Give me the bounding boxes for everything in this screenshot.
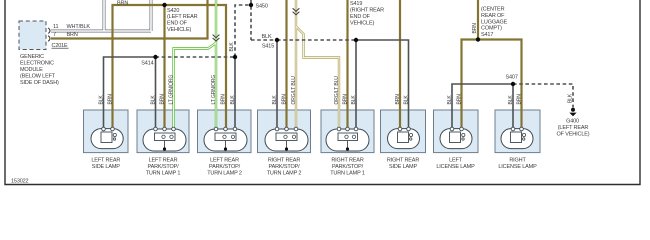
- svg-text:LEFT REAR: LEFT REAR: [149, 157, 178, 163]
- label connector C201E: [52, 43, 69, 49]
- label splice S420: [167, 8, 198, 33]
- svg-text:(LEFT REAR: (LEFT REAR: [167, 14, 198, 20]
- inline connector on ORG/LT BLU wire: [293, 8, 300, 14]
- inline connector on LT GRN/ORG wire: [213, 35, 220, 41]
- splice dot S415: [275, 38, 279, 42]
- svg-text:BLK: BLK: [150, 95, 156, 105]
- splice dot S417: [476, 37, 480, 41]
- svg-text:TURN LAMP 2: TURN LAMP 2: [267, 170, 302, 176]
- svg-text:S450: S450: [256, 3, 268, 9]
- svg-text:RIGHT REAR: RIGHT REAR: [268, 157, 300, 163]
- wire BLK dashed S415 to S419: [277, 39, 356, 41]
- svg-text:SIDE LAMP: SIDE LAMP: [389, 164, 417, 170]
- svg-text:RIGHT REAR: RIGHT REAR: [387, 157, 419, 163]
- wire BLK dashed S414 to S450 drop: [156, 56, 236, 58]
- svg-text:BLK: BLK: [230, 95, 236, 105]
- svg-text:LT GRN/ORG: LT GRN/ORG: [211, 75, 217, 105]
- junction dot S414/S450: [233, 55, 237, 59]
- svg-text:VEHICLE): VEHICLE): [350, 20, 374, 26]
- svg-text:GENERIC: GENERIC: [20, 54, 44, 60]
- vertical wire color labels lamp 8: [508, 94, 523, 105]
- svg-text:LT GRN/ORG: LT GRN/ORG: [168, 75, 174, 105]
- svg-text:BRN: BRN: [472, 23, 478, 34]
- svg-text:SIDE OF DASH): SIDE OF DASH): [20, 80, 59, 86]
- svg-text:REAR OF: REAR OF: [481, 13, 505, 19]
- svg-text:BRN: BRN: [67, 32, 78, 38]
- bulb RIGHT REAR SIDE LAMP: [388, 127, 420, 148]
- vertical wire color labels lamp 1: [98, 94, 113, 105]
- lamp box LEFT LICENSE LAMP: [434, 110, 479, 153]
- wire BLK solid S419 to lamp 5: [355, 40, 357, 128]
- svg-text:ORG/LT BLU: ORG/LT BLU: [291, 76, 297, 105]
- bulb RIGHT REAR PARK/STOP/TURN LAMP 1: [326, 127, 369, 151]
- svg-text:BRN: BRN: [456, 94, 462, 105]
- svg-text:BLK: BLK: [403, 95, 409, 105]
- svg-text:END OF: END OF: [167, 21, 188, 27]
- wire BLK solid S415 to lamp 4: [276, 40, 278, 128]
- wire LT GRN/ORG to lamp 3 with branch to lamp 2: [174, 0, 217, 128]
- svg-text:BRN: BRN: [281, 94, 287, 105]
- lamp name labels: [91, 157, 120, 170]
- svg-text:TURN LAMP 1: TURN LAMP 1: [330, 170, 365, 176]
- module pin 7 arc: [48, 36, 50, 42]
- svg-text:COMPT): COMPT): [481, 26, 502, 32]
- wire BRN from module pin 7 right then up to top edge: [51, 0, 208, 39]
- bulb RIGHT REAR PARK/STOP/TURN LAMP 2: [265, 127, 308, 151]
- svg-text:S417: S417: [481, 32, 493, 38]
- splice dot S450: [249, 3, 253, 7]
- wire BRN S420 bridge feeding lamps 1,2,3: [113, 5, 227, 128]
- svg-text:END OF: END OF: [350, 14, 371, 20]
- lamp box LEFT REAR SIDE LAMP: [84, 110, 129, 153]
- label generic electronic module: [20, 54, 59, 86]
- svg-text:LEFT REAR: LEFT REAR: [91, 157, 120, 163]
- svg-text:BRN: BRN: [516, 94, 522, 105]
- splice dot S420: [162, 3, 166, 7]
- svg-text:ELECTRONIC: ELECTRONIC: [20, 61, 54, 67]
- vertical wire color labels lamp 7: [447, 94, 463, 105]
- splice dot S419: [354, 38, 358, 42]
- svg-text:SIDE LAMP: SIDE LAMP: [92, 164, 120, 170]
- wire WHT/BLK from module pin 11 up to top edge (double line): [51, 0, 151, 31]
- svg-text:11: 11: [53, 24, 59, 30]
- wire BRN S417 to license lamps: [462, 0, 522, 128]
- vertical wire color labels lamp 5: [334, 76, 357, 105]
- svg-text:(LEFT REAR: (LEFT REAR: [558, 125, 589, 131]
- svg-text:S414: S414: [141, 61, 153, 67]
- wire BRN to lamp 5: [346, 0, 348, 128]
- bulb RIGHT LICENSE LAMP: [501, 127, 533, 148]
- svg-text:BRN: BRN: [117, 1, 128, 7]
- wire BRN to lamp 4: [285, 0, 287, 128]
- svg-text:G400: G400: [566, 119, 579, 125]
- wire BLK dashed vertical from S450 to S414: [235, 5, 251, 57]
- wire BLK solid S419 to lamp 6: [356, 40, 409, 128]
- svg-text:BLK: BLK: [98, 95, 104, 105]
- svg-text:BRN: BRN: [395, 94, 401, 105]
- svg-text:PARK/STOP/: PARK/STOP/: [268, 164, 300, 170]
- vertical wire color labels lamp 6: [395, 94, 410, 105]
- svg-text:S420: S420: [167, 8, 179, 14]
- vertical wire color labels lamp 4: [272, 76, 297, 105]
- wire BLK S414 joining lamps 1,2: [104, 57, 156, 128]
- bulb LEFT REAR PARK/STOP/TURN LAMP 2: [204, 127, 247, 151]
- svg-text:BLK: BLK: [567, 93, 573, 103]
- svg-text:LEFT: LEFT: [449, 157, 463, 163]
- svg-text:PARK/STOP/: PARK/STOP/: [209, 164, 241, 170]
- svg-text:BRN: BRN: [107, 94, 113, 105]
- svg-text:ORG/LT BLU: ORG/LT BLU: [334, 76, 340, 105]
- generic electronic module box: [19, 21, 46, 50]
- svg-text:PARK/STOP/: PARK/STOP/: [147, 164, 179, 170]
- splice dot S414: [153, 55, 157, 59]
- svg-text:S407: S407: [506, 74, 518, 80]
- svg-text:(BELOW LEFT: (BELOW LEFT: [20, 74, 56, 80]
- svg-text:LEFT REAR: LEFT REAR: [210, 157, 239, 163]
- svg-text:S419: S419: [350, 1, 362, 7]
- label splice S417: [481, 7, 508, 39]
- svg-text:RIGHT REAR: RIGHT REAR: [331, 157, 363, 163]
- vertical wire color labels lamp 2: [150, 75, 174, 105]
- lamp box RIGHT REAR PARK/STOP/TURN LAMP 2: [258, 110, 311, 153]
- svg-text:VEHICLE): VEHICLE): [167, 27, 191, 33]
- bulb LEFT LICENSE LAMP: [440, 127, 472, 148]
- svg-text:LICENSE LAMP: LICENSE LAMP: [436, 164, 475, 170]
- bulb LEFT REAR PARK/STOP/TURN LAMP 1: [143, 127, 186, 151]
- svg-text:WHT/BLK: WHT/BLK: [67, 24, 91, 30]
- svg-text:TURN LAMP 1: TURN LAMP 1: [146, 170, 181, 176]
- svg-text:LUGGAGE: LUGGAGE: [481, 19, 508, 25]
- svg-text:S415: S415: [262, 43, 274, 49]
- svg-text:153022: 153022: [11, 179, 29, 185]
- svg-text:MODULE: MODULE: [20, 67, 43, 73]
- wire BLK solid S414 to lamp 3: [234, 57, 236, 128]
- svg-text:BRN: BRN: [159, 94, 165, 105]
- svg-text:BLK: BLK: [262, 34, 272, 40]
- lamp box RIGHT LICENSE LAMP: [495, 110, 540, 153]
- page border frame: [5, 0, 640, 185]
- label BLK / S415: [262, 34, 275, 49]
- wire ORG/LT BLU to lamp 4 with branch to lamp 5: [296, 0, 339, 128]
- svg-text:OF VEHICLE): OF VEHICLE): [557, 132, 590, 138]
- svg-text:LICENSE LAMP: LICENSE LAMP: [498, 164, 537, 170]
- vertical wire color labels lamp 3: [211, 75, 236, 105]
- module pin 11 arc: [48, 28, 50, 34]
- wire BLK dashed S450 vertical: [250, 0, 252, 40]
- svg-text:BLK: BLK: [351, 95, 357, 105]
- splice dot S407: [511, 82, 515, 86]
- svg-text:TURN LAMP 2: TURN LAMP 2: [207, 170, 242, 176]
- svg-text:BLK: BLK: [447, 95, 453, 105]
- svg-text:BRN: BRN: [342, 94, 348, 105]
- svg-text:BLK: BLK: [508, 95, 514, 105]
- svg-text:7: 7: [53, 32, 56, 38]
- wire BLK dashed S407 to ground G400: [513, 84, 573, 108]
- svg-text:PARK/STOP/: PARK/STOP/: [332, 164, 364, 170]
- svg-text:BLK: BLK: [229, 42, 235, 52]
- svg-text:(RIGHT REAR: (RIGHT REAR: [350, 7, 384, 13]
- lamp box RIGHT REAR SIDE LAMP: [381, 110, 426, 153]
- bulb LEFT REAR SIDE LAMP: [91, 127, 123, 148]
- svg-text:RIGHT: RIGHT: [509, 157, 526, 163]
- lamp box LEFT REAR PARK/STOP/TURN LAMP 1: [137, 110, 189, 153]
- label ground G400: [557, 119, 590, 138]
- ground G400 symbol: [569, 108, 576, 116]
- wire BLK S407 joining license lamps: [452, 84, 513, 128]
- lamp box LEFT REAR PARK/STOP/TURN LAMP 2: [198, 110, 252, 153]
- svg-text:BLK: BLK: [272, 95, 278, 105]
- svg-text:(CENTER: (CENTER: [481, 7, 505, 13]
- wire BRN to lamp 6: [399, 0, 401, 128]
- wire BLK dashed S450 to S415: [251, 39, 277, 41]
- svg-text:BRN: BRN: [220, 94, 226, 105]
- label splice S419: [350, 1, 384, 27]
- lamp box RIGHT REAR PARK/STOP/TURN LAMP 1: [321, 110, 374, 153]
